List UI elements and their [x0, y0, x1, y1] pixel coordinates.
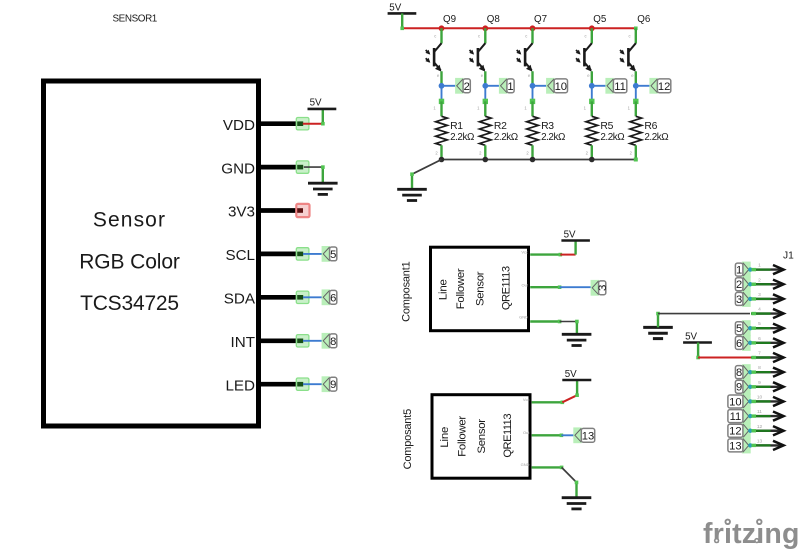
junction J1-12 tip dot — [748, 429, 752, 433]
junction rail dot Q9 — [439, 25, 445, 31]
wire collector Q7 — [531, 28, 533, 43]
junction c5 Vcc cap — [561, 401, 565, 405]
svg-text:c: c — [585, 33, 587, 38]
wire c5 GND green — [532, 466, 562, 468]
wire J1-7 green drop from 5V — [697, 343, 699, 358]
phototransistor Q8 — [469, 33, 485, 78]
pin terminal SCL (green highlight) — [296, 248, 309, 260]
net flag 2 (Q9 emitter) — [455, 78, 470, 94]
pin J1-9 (arrow) — [752, 382, 784, 391]
svg-text:6: 6 — [758, 336, 761, 342]
junction J1-13 tip dot — [748, 443, 752, 447]
pin lead INT — [259, 338, 302, 343]
junction J1-4 bend cap — [656, 312, 660, 316]
wire emitter tap blue Q9 — [442, 85, 457, 87]
fritzing logo — [703, 518, 800, 549]
svg-text:5V: 5V — [685, 331, 697, 342]
net flag 6 (SDA) — [322, 289, 337, 305]
svg-text:GND: GND — [521, 462, 530, 467]
svg-text:Sensor: Sensor — [476, 419, 488, 454]
svg-text:1: 1 — [507, 81, 513, 93]
svg-text:LED: LED — [225, 377, 255, 394]
svg-text:Vcc: Vcc — [521, 249, 528, 254]
wire c1 Out green — [530, 286, 559, 288]
wire collector Q9 — [440, 28, 442, 43]
junction emitter node Q9 — [439, 83, 445, 89]
pin lead VDD — [259, 121, 302, 126]
svg-text:12: 12 — [757, 424, 763, 430]
svg-text:8: 8 — [330, 336, 336, 348]
pin J1-3 (arrow) — [752, 294, 784, 303]
svg-text:2.2kΩ: 2.2kΩ — [494, 132, 518, 143]
svg-text:12: 12 — [658, 81, 670, 93]
power symbol 5V (Composant1) — [561, 229, 590, 240]
svg-text:11: 11 — [757, 409, 762, 415]
net flag 2 (J1 pin 2) — [735, 276, 750, 292]
resistor R2 — [477, 106, 491, 156]
wire LED blue segment — [303, 383, 323, 385]
wire emitter to resistor blue Q7 — [532, 86, 534, 101]
wire collector Q6 — [635, 28, 637, 43]
wire emitter to resistor blue Q9 — [441, 86, 443, 101]
svg-text:12: 12 — [729, 426, 741, 438]
svg-text:J1: J1 — [783, 251, 794, 262]
svg-text:Q5: Q5 — [593, 14, 607, 25]
pin J1-6 (arrow) — [752, 338, 784, 347]
svg-text:c: c — [478, 33, 480, 38]
wire resistor top lead R2 — [484, 101, 486, 116]
junction resistor top R6 — [633, 99, 638, 104]
power symbol 5V (Composant5) — [562, 369, 591, 380]
junction J1-8 tip dot — [748, 370, 752, 374]
value label R5 2.2k — [600, 121, 624, 143]
svg-text:R5: R5 — [600, 121, 613, 132]
net flag 8 (INT) — [322, 333, 337, 349]
svg-text:RGB Color: RGB Color — [79, 250, 180, 273]
net flag 12 (Q6 emitter) — [649, 78, 670, 94]
wire GND dark segment — [304, 166, 323, 168]
svg-text:5: 5 — [330, 249, 336, 261]
pin J1-8 (arrow) — [752, 368, 784, 377]
net flag 9 (LED) — [322, 376, 337, 392]
junction rail left end cap — [400, 27, 404, 31]
svg-text:2: 2 — [464, 81, 470, 93]
svg-text:13: 13 — [729, 440, 741, 452]
wire 5V feed green riser — [401, 13, 403, 28]
junction VDD wire bend — [321, 122, 325, 126]
svg-text:R3: R3 — [541, 121, 554, 132]
wire c1 GND dark segment — [560, 321, 577, 323]
pin J1-11 (arrow) — [752, 412, 784, 421]
svg-text:R1: R1 — [450, 121, 463, 132]
svg-text:2.2kΩ: 2.2kΩ — [450, 132, 474, 143]
pin name labels Composant5 — [521, 397, 531, 467]
pin J1-4 (arrow) — [751, 309, 784, 318]
wire SDA blue segment — [303, 296, 323, 298]
pin lead GND — [259, 165, 302, 170]
junction emitter node Q5 — [589, 83, 595, 89]
junction rail right end cap — [634, 27, 638, 31]
resistor R6 — [628, 106, 642, 156]
junction rail dot R3 — [530, 157, 536, 163]
power symbol 5V (array rail) — [388, 2, 417, 13]
ground symbol (array) — [397, 189, 427, 200]
wire VDD red segment — [303, 123, 323, 125]
svg-text:9: 9 — [330, 379, 336, 391]
wire resistor bottom lead R1 — [440, 145, 442, 159]
wire rail to ground diagonal — [412, 160, 442, 175]
pin lead 3V3 — [259, 208, 302, 213]
junction emitter node Q6 — [633, 83, 639, 89]
net flag 6 (J1 pin 6) — [735, 335, 750, 351]
phototransistor Q7 — [516, 33, 532, 78]
svg-text:3: 3 — [597, 285, 609, 291]
wire 5V red rail — [402, 27, 636, 29]
pin J1-1 (arrow) — [752, 265, 784, 274]
svg-text:SENSOR1: SENSOR1 — [113, 14, 158, 25]
svg-text:TCS34725: TCS34725 — [80, 292, 179, 315]
wire emitter tap blue Q6 — [636, 85, 651, 87]
wire INT blue segment — [303, 340, 323, 342]
svg-text:9: 9 — [736, 382, 742, 394]
net flag 10 (Q7 emitter) — [546, 78, 567, 94]
pin name labels Composant1 — [519, 249, 529, 319]
ground symbol (TCS GND) — [308, 183, 338, 194]
IC title text Composant5 — [439, 414, 514, 458]
net flag 3 (Composant1 Out) — [591, 280, 610, 296]
svg-text:2: 2 — [758, 277, 761, 283]
svg-text:GND: GND — [519, 314, 528, 319]
junction rail dot R2 — [483, 157, 489, 163]
wire resistor top lead R5 — [591, 101, 593, 116]
wire c1 Out blue segment — [560, 286, 592, 288]
wire resistor top lead R6 — [635, 101, 637, 116]
pin terminal LED (green highlight) — [296, 378, 309, 390]
svg-text:c: c — [434, 33, 436, 38]
IC body SENSOR1 (TCS34725) — [44, 81, 259, 426]
IC title text — [79, 209, 180, 316]
junction rail dot Q7 — [530, 25, 536, 31]
junction resistor top R5 — [589, 99, 594, 104]
net flag 11 (J1 pin 11) — [728, 408, 751, 424]
resistor R1 — [433, 106, 447, 156]
svg-text:Out: Out — [523, 430, 530, 435]
svg-text:11: 11 — [614, 81, 626, 93]
svg-text:Q6: Q6 — [637, 14, 651, 25]
junction rail dot Q8 — [482, 25, 488, 31]
junction J1-5 tip dot — [748, 326, 752, 330]
wire ground green drop (array) — [411, 174, 413, 189]
power symbol 5V (TCS VDD) — [308, 98, 337, 109]
svg-text:Follower: Follower — [455, 268, 467, 309]
net flag 13 (J1 pin 13) — [728, 437, 751, 453]
svg-text:7: 7 — [758, 351, 761, 357]
net flag 11 (Q5 emitter) — [605, 78, 626, 94]
svg-text:5V: 5V — [564, 229, 576, 240]
svg-text:Out: Out — [522, 282, 529, 287]
svg-text:1: 1 — [758, 263, 761, 269]
junction resistor top R1 — [439, 99, 444, 104]
svg-text:2.2kΩ: 2.2kΩ — [600, 132, 624, 143]
svg-text:13: 13 — [582, 430, 594, 442]
junction c5 Out cap — [560, 434, 564, 438]
pin J1-5 (arrow) — [752, 324, 784, 333]
svg-text:R2: R2 — [494, 121, 507, 132]
junction J1-3 tip dot — [748, 297, 752, 301]
svg-text:2.2kΩ: 2.2kΩ — [541, 132, 565, 143]
svg-text:2: 2 — [736, 279, 742, 291]
junction J1-1 tip dot — [748, 267, 752, 271]
pin J1-12 (arrow) — [752, 426, 784, 435]
svg-text:VDD: VDD — [223, 117, 255, 134]
pin J1-10 (arrow) — [752, 397, 784, 406]
net flag 13 (Composant5 Out) — [573, 427, 594, 443]
pin lead SCL — [259, 252, 302, 257]
junction J1-7 bend cap — [696, 356, 700, 360]
wire J1-4 dark segment — [658, 313, 750, 315]
junction ground bend cap — [410, 172, 414, 176]
net flag 1 (J1 pin 1) — [735, 262, 750, 278]
junction emitter node Q7 — [530, 83, 536, 89]
wire collector Q5 — [591, 28, 593, 43]
wire c1 Vcc green — [530, 253, 560, 255]
junction rail dot Q5 — [589, 25, 595, 31]
resistor R5 — [584, 106, 598, 156]
junction c5 GND bend cap — [575, 481, 579, 485]
wire collector Q8 — [484, 28, 486, 43]
svg-text:c: c — [629, 33, 631, 38]
svg-text:Composant5: Composant5 — [402, 409, 414, 469]
wire c5 Vcc red diagonal — [562, 395, 577, 402]
svg-text:frıtzıng: frıtzıng — [703, 518, 800, 549]
svg-text:Q9: Q9 — [443, 14, 456, 25]
svg-text:6: 6 — [736, 338, 742, 350]
svg-text:11: 11 — [730, 411, 742, 423]
net flag 1 (Q8 emitter) — [499, 78, 514, 94]
wire resistor bottom lead R6 — [635, 145, 637, 159]
svg-text:9: 9 — [758, 380, 761, 386]
wire emitter tap blue Q8 — [485, 85, 500, 87]
svg-text:3: 3 — [758, 292, 761, 298]
wire emitter to resistor blue Q8 — [484, 86, 486, 101]
power symbol 5V (J1 pin 7) — [683, 331, 712, 342]
wire emitter Q9 — [440, 71, 442, 86]
svg-text:5: 5 — [736, 323, 742, 335]
svg-text:Q7: Q7 — [534, 14, 547, 25]
wire c5 GND dark diagonal — [562, 467, 577, 482]
junction c1 GND bend cap — [575, 320, 579, 324]
net flag 12 (J1 pin 12) — [728, 423, 751, 439]
svg-text:6: 6 — [330, 292, 336, 304]
IC body Composant1 (QRE1113) — [431, 247, 529, 331]
svg-text:3: 3 — [736, 294, 742, 306]
svg-text:5: 5 — [758, 321, 761, 327]
svg-text:GND: GND — [221, 160, 255, 177]
resistor R3 — [524, 106, 538, 156]
wire emitter to resistor blue Q5 — [591, 86, 593, 101]
junction J1-10 tip dot — [748, 399, 752, 403]
net flag 10 (J1 pin 10) — [728, 393, 751, 409]
wire resistor top lead R1 — [440, 101, 442, 116]
net flag 9 (J1 pin 9) — [735, 379, 750, 395]
wire emitter Q6 — [635, 71, 637, 86]
wire J1-7 red segment — [698, 357, 752, 359]
net flag 8 (J1 pin 8) — [735, 364, 750, 380]
svg-text:5V: 5V — [310, 98, 322, 109]
wire c5 GND green drop — [575, 482, 577, 497]
pin terminal VDD (green highlight) — [296, 118, 309, 130]
pin J1-2 (arrow) — [752, 280, 784, 289]
junction J1-9 tip dot — [748, 385, 752, 389]
svg-text:Follower: Follower — [456, 416, 468, 457]
svg-text:INT: INT — [231, 334, 255, 351]
pin terminal INT (green highlight) — [296, 335, 309, 347]
wire emitter Q7 — [531, 71, 533, 86]
junction rail dot R1 — [439, 157, 445, 163]
svg-text:5V: 5V — [565, 369, 577, 380]
svg-text:c: c — [525, 33, 527, 38]
ground symbol (Composant5) — [562, 498, 592, 509]
svg-text:Line: Line — [437, 279, 449, 300]
pin J1-13 (arrow) — [752, 441, 784, 450]
svg-text:SDA: SDA — [224, 291, 256, 308]
svg-text:10: 10 — [757, 394, 763, 400]
wire GND green drop — [322, 166, 324, 183]
svg-text:SCL: SCL — [225, 247, 255, 264]
wire c5 Out green — [532, 434, 562, 436]
ground symbol (J1 pin 4) — [643, 327, 673, 338]
junction resistor top R3 — [530, 99, 535, 104]
junction J1-11 tip dot — [748, 414, 752, 418]
junction c1 Vcc cap — [559, 253, 563, 257]
wire c5 Vcc green — [532, 401, 563, 403]
pin terminal GND (green highlight) — [296, 161, 309, 173]
junction J1-2 tip dot — [748, 282, 752, 286]
pin lead LED — [259, 382, 302, 387]
wire emitter tap blue Q7 — [533, 85, 548, 87]
wire emitter Q8 — [484, 71, 486, 86]
junction J1-6 tip dot — [748, 341, 752, 345]
wire c1 Vcc green riser — [574, 241, 576, 255]
wire SCL blue segment — [303, 253, 323, 255]
value label R3 2.2k — [541, 121, 565, 143]
wire emitter to resistor blue Q6 — [635, 86, 637, 101]
svg-text:5V: 5V — [389, 2, 401, 13]
phototransistor Q5 — [576, 33, 592, 78]
junction c1 Out cap — [558, 285, 562, 289]
svg-text:Composant1: Composant1 — [401, 261, 413, 321]
wire resistor common rail — [442, 159, 636, 161]
svg-text:10: 10 — [555, 81, 567, 93]
wire emitter Q5 — [591, 71, 593, 86]
wire c1 GND green — [530, 320, 559, 322]
wire c1 Vcc red segment — [560, 254, 575, 256]
wire c5 Out blue segment — [561, 434, 574, 436]
svg-text:13: 13 — [757, 438, 763, 444]
junction rail end cap — [634, 158, 638, 162]
svg-text:4: 4 — [758, 307, 761, 313]
svg-text:Vcc: Vcc — [523, 397, 530, 402]
junction emitter node Q8 — [482, 83, 488, 89]
svg-text:Q8: Q8 — [487, 14, 501, 25]
wire VDD green riser — [322, 109, 324, 124]
svg-text:2.2kΩ: 2.2kΩ — [644, 132, 668, 143]
junction c1 GND cap — [558, 320, 562, 324]
net flag 3 (J1 pin 3) — [735, 291, 750, 307]
svg-text:Sensor: Sensor — [93, 209, 166, 232]
svg-text:10: 10 — [729, 396, 741, 408]
value label R1 2.2k — [450, 121, 474, 143]
pin J1-7 (arrow) — [751, 353, 784, 362]
value label R2 2.2k — [494, 121, 518, 143]
pin terminal 3V3 (unconnected, red highlight) — [296, 204, 309, 217]
svg-text:Sensor: Sensor — [474, 271, 486, 306]
svg-text:8: 8 — [758, 365, 761, 371]
wire resistor bottom lead R5 — [591, 145, 593, 159]
junction GND wire bend — [321, 165, 325, 169]
svg-text:3V3: 3V3 — [228, 204, 255, 221]
net flag 5 (SCL) — [322, 246, 337, 262]
value label R6 2.2k — [644, 121, 668, 143]
wire resistor bottom lead R3 — [531, 145, 533, 159]
svg-text:8: 8 — [736, 367, 742, 379]
svg-text:QRE1113: QRE1113 — [500, 266, 512, 310]
ground symbol (Composant1) — [562, 334, 592, 345]
junction c5 Vcc bend cap — [575, 393, 579, 397]
svg-text:QRE1113: QRE1113 — [502, 414, 514, 458]
svg-text:R6: R6 — [644, 121, 657, 132]
wire resistor bottom lead R2 — [484, 145, 486, 159]
pin terminal SDA (green highlight) — [296, 291, 309, 303]
wire c1 GND green drop — [576, 322, 578, 335]
IC body Composant5 (QRE1113) — [432, 395, 530, 479]
phototransistor Q6 — [620, 33, 636, 78]
wire J1-4 green drop to ground — [657, 314, 659, 328]
junction c5 GND cap — [560, 466, 564, 470]
junction resistor top R2 — [483, 99, 488, 104]
pin lead SDA — [259, 295, 302, 300]
svg-text:Line: Line — [439, 427, 451, 448]
wire resistor top lead R3 — [531, 101, 533, 116]
wire emitter tap blue Q5 — [592, 85, 607, 87]
junction rail dot R5 — [589, 157, 595, 163]
net flag 5 (J1 pin 5) — [735, 320, 750, 336]
wire c5 Vcc green riser — [576, 380, 578, 395]
IC title text Composant1 — [437, 266, 512, 310]
svg-text:1: 1 — [736, 265, 742, 277]
phototransistor Q9 — [425, 33, 441, 78]
